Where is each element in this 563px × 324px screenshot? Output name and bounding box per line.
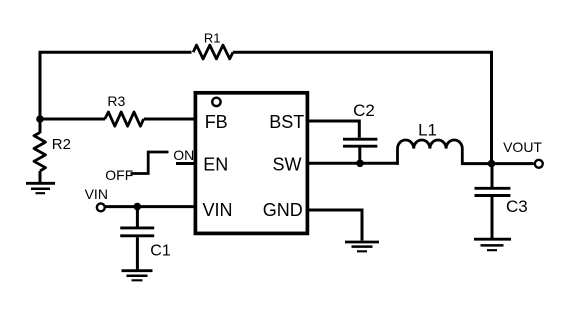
svg-text:R1: R1 [204,31,221,46]
svg-text:SW: SW [273,155,302,175]
svg-text:VOUT: VOUT [503,139,542,155]
svg-text:R2: R2 [52,136,71,153]
svg-text:BST: BST [269,112,304,132]
svg-text:R3: R3 [107,93,125,109]
svg-text:C2: C2 [353,101,375,120]
svg-text:ON: ON [173,147,194,163]
svg-text:C1: C1 [150,243,171,260]
svg-text:OFF: OFF [105,167,133,183]
svg-text:C3: C3 [506,197,528,216]
svg-text:FB: FB [205,112,228,132]
svg-text:GND: GND [263,200,303,220]
svg-text:VIN: VIN [85,186,108,202]
svg-text:VIN: VIN [203,200,233,220]
svg-text:EN: EN [203,155,228,175]
svg-text:L1: L1 [418,120,437,139]
